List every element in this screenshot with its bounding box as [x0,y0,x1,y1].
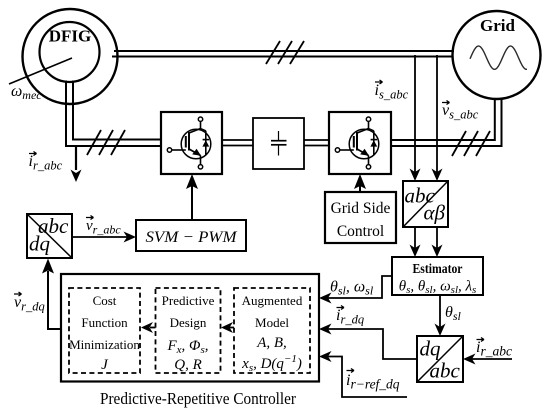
DFIG generator [23,9,118,104]
label i_r_abc [29,152,63,173]
wire i_r_abc input (right) [463,354,512,365]
svg-text:Fx, Φs,: Fx, Φs, [166,338,208,356]
wire v_s_abc measurement [432,55,443,181]
svg-text:Estimator: Estimator [413,261,463,276]
svg-text:J: J [101,357,109,373]
svg-text:ωmec: ωmec [11,83,42,102]
wire v_r_dq (controller to abc/dq) [42,259,61,330]
block SVM-PWM [136,220,246,251]
converter RSC (rotor side) [161,112,222,174]
transform abc/alphabeta [403,181,448,227]
svg-text:Function: Function [81,315,128,330]
block cost function minimization [69,288,140,373]
svg-text:θsl, ωsl: θsl, ωsl [330,279,374,298]
svg-text:θs, θsl, ωsl, λs: θs, θsl, ωsl, λs [399,279,477,297]
transform abc/dq [27,214,72,258]
svg-text:Cost: Cost [93,293,117,308]
wire i_r_abc measurement arrow [71,147,82,182]
label i_r-ref_dq [346,369,400,392]
label v_r_dq [14,292,45,314]
svg-text:Augmented: Augmented [242,293,303,308]
svg-text:αβ: αβ [424,201,446,225]
svg-text:Control: Control [337,223,384,240]
svg-text:vr_dq: vr_dq [14,294,45,314]
svg-text:dq: dq [29,232,51,256]
wire v_r_abc (abc/dq to SVM-PWM) [72,232,136,243]
svg-text:Q, R: Q, R [174,357,202,373]
svg-text:DFIG: DFIG [49,27,92,46]
label i_r_dq [336,306,364,327]
dc link wires [222,140,329,146]
svg-text:A, B,: A, B, [256,335,287,351]
wire stator (double line DFIG to Grid) [112,51,454,57]
block predictive design [156,288,221,373]
svg-text:θsl: θsl [445,304,462,323]
svg-text:ir_dq: ir_dq [336,307,364,327]
shaft line omega_mec [9,58,72,84]
svg-text:Grid Side: Grid Side [331,200,391,217]
block augmented model [234,288,310,374]
label v_r_abc [86,216,121,237]
svg-text:xs, D(q−1): xs, D(q−1) [241,353,302,374]
arrow augmented to predictive [221,322,234,333]
estimator block [392,257,483,296]
slash marks stator [266,41,304,64]
label i_r_abc (right) [476,338,512,359]
svg-text:vr_abc: vr_abc [86,218,121,237]
grid source [453,11,541,99]
svg-text:Design: Design [170,315,207,330]
wire theta_sl (estimator to dq/abc) [435,295,446,336]
block grid side control [325,192,396,243]
wire theta_sl omega_sl (estimator to controller) [319,276,392,304]
converter GSC (grid side) [329,112,391,174]
wire GSC to grid (double line) [391,99,502,147]
svg-text:Grid: Grid [480,16,515,35]
svg-text:Predictive: Predictive [162,293,215,308]
svg-text:dq: dq [420,337,442,361]
svg-text:SVM − PWM: SVM − PWM [146,229,239,246]
svg-text:ir−ref_dq: ir−ref_dq [346,372,400,392]
slash marks grid side [452,131,490,156]
wire SVM-PWM to RSC [186,174,198,220]
svg-text:vs_abc: vs_abc [442,102,479,122]
arrow predictive to cost [141,322,156,333]
svg-text:abc: abc [430,359,461,383]
wire rotor (DFIG down to RSC, double line) [66,81,161,147]
wire i_r-ref_dq input [319,351,407,397]
svg-text:Model: Model [255,315,289,330]
slash marks rotor [87,130,125,155]
svg-text:Predictive-Repetitive Controll: Predictive-Repetitive Controller [100,389,296,408]
wire grid side control to GSC [354,174,366,192]
svg-text:ir_abc: ir_abc [29,153,63,173]
transform dq/abc [417,336,463,383]
label i_s_abc [375,80,409,102]
controller box (Predictive-Repetitive Controller) [61,274,319,382]
capacitor (dc link) [253,118,304,169]
svg-text:Minimization: Minimization [69,337,140,352]
svg-text:is_abc: is_abc [375,82,409,102]
wire i_r_dq (dq/abc to controller) [319,324,417,360]
label v_s_abc [442,101,479,122]
wire i_s_abc measurement [410,55,421,181]
wires abc/alphabeta to estimator [410,227,443,257]
